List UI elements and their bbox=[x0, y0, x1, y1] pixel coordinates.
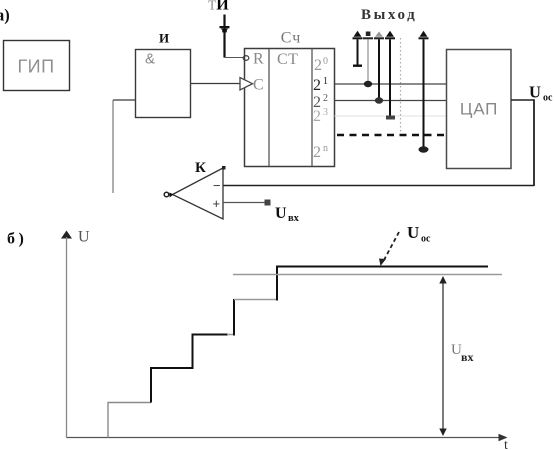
wire 2^2 to DAC bbox=[335, 100, 447, 102]
svg-text:C: C bbox=[253, 77, 264, 94]
U axis bbox=[61, 231, 72, 438]
wire TI to R input bbox=[225, 57, 245, 59]
svg-text:R: R bbox=[253, 51, 264, 68]
AND gate DD1 bbox=[136, 50, 191, 118]
comparator corner dot bbox=[222, 166, 226, 170]
wire vertical from AND input down bbox=[112, 100, 114, 193]
input terminal square bbox=[265, 200, 271, 206]
svg-text:CT: CT bbox=[277, 51, 298, 68]
svg-text:1: 1 bbox=[323, 76, 328, 87]
output tap line 2 bbox=[363, 32, 373, 88]
pin label 2^n bbox=[313, 143, 328, 161]
inversion bubble R input bbox=[243, 56, 249, 61]
svg-text:а): а) bbox=[0, 6, 10, 25]
pin label 2^2 bbox=[313, 93, 328, 111]
pin label 2^3 bbox=[313, 107, 328, 125]
wire plus input bbox=[223, 202, 265, 204]
staircase gray first step bbox=[108, 403, 151, 438]
t axis bbox=[67, 434, 508, 442]
counter CT box bbox=[245, 49, 335, 167]
wire 2^3 faint bbox=[335, 115, 447, 117]
svg-text:2: 2 bbox=[314, 57, 322, 74]
svg-text:ГИП: ГИП bbox=[17, 57, 54, 77]
pin label 2^1 bbox=[313, 76, 328, 94]
svg-text:3: 3 bbox=[323, 107, 328, 118]
label U_vx input bbox=[275, 205, 300, 224]
wire DAC output feedback bbox=[223, 99, 534, 186]
staircase black steps bbox=[151, 335, 228, 403]
measurement arrow U_vx bbox=[439, 276, 446, 436]
svg-text:U: U bbox=[78, 229, 90, 246]
output tap line 4 bbox=[385, 31, 395, 120]
svg-text:ос: ос bbox=[543, 93, 553, 104]
TI arrow down bbox=[220, 26, 230, 32]
svg-text:t: t bbox=[504, 438, 508, 450]
U_vx level line gray bbox=[233, 274, 502, 276]
svg-text:вх: вх bbox=[461, 350, 473, 364]
svg-text:К: К bbox=[195, 160, 206, 176]
svg-text:2: 2 bbox=[313, 77, 321, 94]
svg-text:−: − bbox=[213, 178, 221, 193]
DAC TsAP box bbox=[447, 50, 512, 169]
generator GIP box bbox=[4, 41, 70, 91]
svg-text:вх: вх bbox=[288, 213, 300, 224]
wire AND output to C input bbox=[191, 83, 241, 85]
svg-text:Выход: Выход bbox=[361, 7, 417, 23]
svg-text:n: n bbox=[323, 143, 328, 154]
label U_vx on graph bbox=[451, 342, 473, 364]
svg-text:2: 2 bbox=[313, 108, 321, 125]
svg-text:&: & bbox=[145, 51, 155, 68]
staircase tread4 gray bbox=[234, 299, 277, 301]
output tap line 1 bbox=[353, 31, 363, 67]
label U_os on graph bbox=[407, 223, 431, 245]
svg-text:0: 0 bbox=[323, 56, 328, 67]
svg-text:+: + bbox=[213, 196, 221, 211]
svg-text:U: U bbox=[529, 83, 541, 102]
wire TI vertical bbox=[223, 15, 225, 58]
svg-text:U: U bbox=[275, 205, 287, 222]
label U_os top right bbox=[529, 83, 553, 104]
output tap line 3 bbox=[374, 32, 384, 104]
dynamic input triangle C bbox=[240, 78, 253, 91]
svg-text:2: 2 bbox=[323, 93, 328, 104]
svg-text:ос: ос bbox=[421, 234, 431, 245]
svg-text:2: 2 bbox=[313, 144, 321, 161]
staircase tread3 gray tail bbox=[227, 334, 235, 336]
staircase riser5 and top level bbox=[277, 267, 488, 301]
dotted vertical line bbox=[400, 38, 402, 134]
wire 2^1 to DAC bbox=[335, 83, 447, 85]
svg-text:Сч: Сч bbox=[281, 30, 302, 47]
comparator U2 bbox=[164, 168, 223, 219]
pin label 2^0 bbox=[314, 56, 328, 74]
staircase riser4 bbox=[233, 299, 235, 336]
svg-text:ТИ: ТИ bbox=[208, 0, 229, 14]
svg-text:б): б) bbox=[7, 231, 27, 248]
svg-text:U: U bbox=[407, 223, 419, 242]
dashed arrow to staircase top bbox=[379, 232, 399, 266]
output tap line 5 bbox=[419, 31, 429, 153]
wire 2^n dashed bbox=[337, 134, 444, 137]
wire AND input horizontal bbox=[113, 99, 136, 101]
svg-text:ЦАП: ЦАП bbox=[460, 100, 498, 119]
svg-text:И: И bbox=[159, 31, 169, 46]
